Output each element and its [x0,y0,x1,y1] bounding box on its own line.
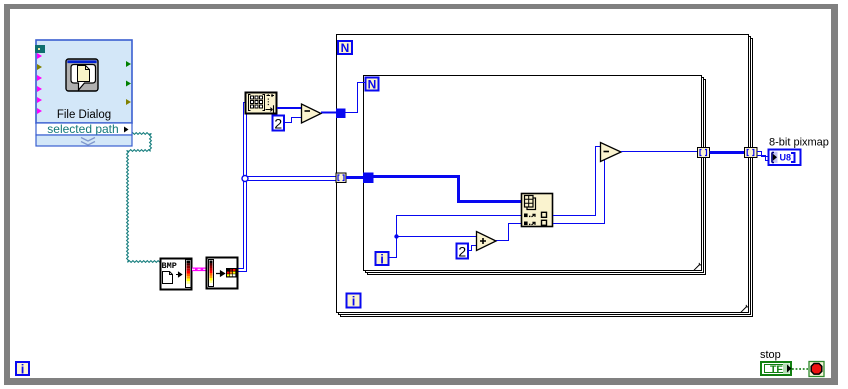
junction dot [394,234,398,238]
wire 2 -> add [468,246,477,251]
svg-text:TF: TF [770,364,783,376]
tunnel solid (outer loop left, N wire) [336,109,346,119]
wire cluster (BMP -> unflatten) [192,268,206,272]
svg-text:U8: U8 [780,153,792,163]
inner for loop border [364,76,706,275]
outer for loop iteration terminal i [347,294,361,309]
outer for loop count terminal N [338,41,352,55]
wire array size -> subtract [277,107,301,109]
Index Array function [522,194,553,227]
inner for loop iteration terminal i [376,252,389,267]
tunnel auto-indexing (outer loop right) [745,148,758,158]
svg-text:BMP: BMP [162,261,177,271]
wire constant 2 -> subtract [284,118,301,123]
wire i -> junction -> index/add [389,216,522,258]
svg-text:i: i [380,252,384,267]
subtract function (inner) [601,143,622,162]
wire 2D array (unflatten -> up to Array Size and loop) [238,103,337,272]
inner for loop count terminal N [366,78,379,92]
subtract function [302,104,322,123]
tunnel auto-indexing (inner loop right) [698,148,710,158]
outer for loop border [337,35,753,317]
wire 1D array (tunnel -> Index Array) [374,177,522,202]
svg-text:File Dialog: File Dialog [57,109,111,121]
wire add -> index input 2 [496,224,522,241]
wire junction [242,176,248,182]
express VI File Dialog [35,40,132,146]
numeric constant 2 [273,116,285,132]
wire boolean dotted stop->condition [792,368,808,370]
wire index out 1 -> subtract [553,147,601,216]
Unflatten Pixmap icon [207,258,238,289]
Read BMP File icon [161,259,192,290]
wire path (selected path -> Read BMP) [127,133,160,263]
numeric constant 2 (inner) [457,244,469,260]
while loop conditional terminal (stop sign) [809,362,824,377]
add function [477,232,497,251]
svg-text:selected path: selected path [47,122,118,136]
Array Size icon [246,93,277,114]
wire 1D array (outer tunnel -> inner tunnel) [346,176,364,179]
wire 2D array (outer tunnel -> indicator) [757,152,769,161]
outer loop resize notch [741,305,749,313]
while loop iteration terminal i [16,362,29,377]
stop TF terminal [761,362,791,375]
indicator terminal [U8] 8-bit pixmap [769,150,801,166]
svg-text:2: 2 [458,244,466,260]
tunnel auto-indexing (outer loop left) [336,173,346,183]
svg-text:stop: stop [760,349,781,361]
wire 1D array (inner tunnel -> outer tunnel) [710,151,746,154]
svg-text:i: i [21,362,25,377]
inner loop resize notch [694,263,702,271]
wire subtract -> tunnel [321,112,337,114]
svg-text:8-bit pixmap: 8-bit pixmap [769,137,829,149]
wire N count (tunnel -> inner N) [346,83,365,113]
svg-text:N: N [341,41,350,55]
tunnel solid (inner loop left) [363,173,374,184]
svg-text:N: N [368,78,377,92]
wire subtract -> inner tunnel [621,151,698,153]
svg-text:2: 2 [274,116,282,132]
svg-text:i: i [352,294,356,309]
wire index out 2 -> subtract [553,158,605,224]
